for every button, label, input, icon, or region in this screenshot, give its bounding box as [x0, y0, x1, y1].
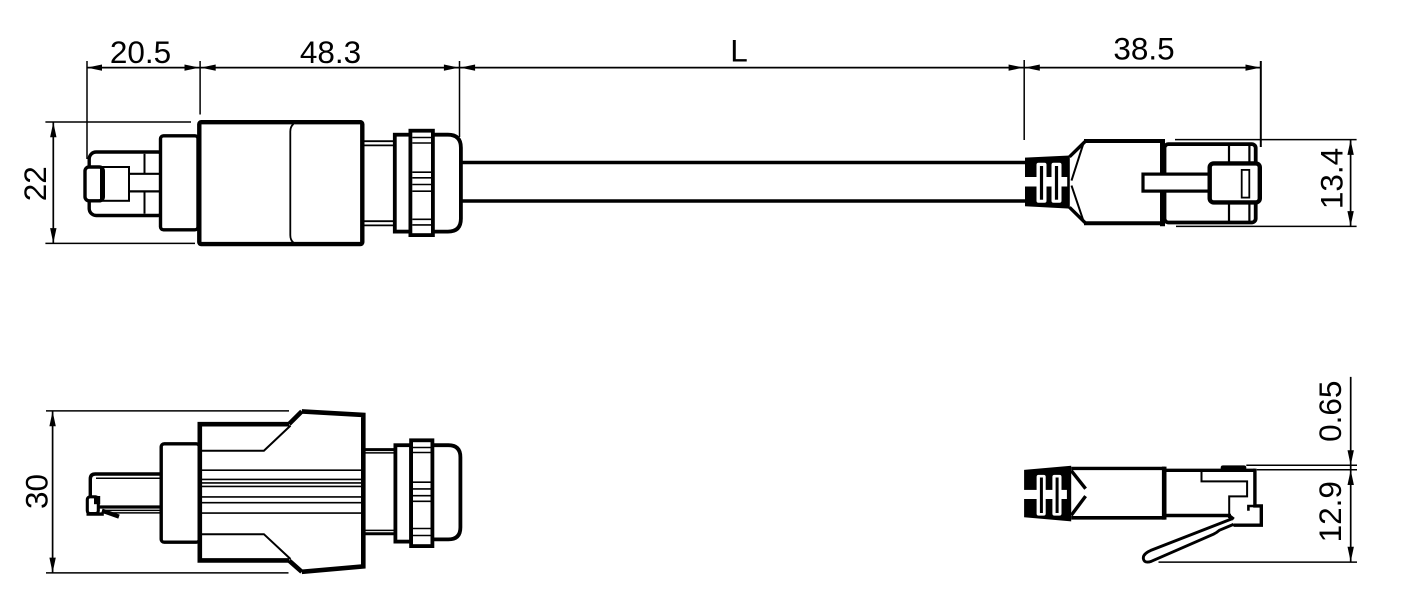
- svg-text:L: L: [730, 33, 748, 69]
- side view knurl lines top group: [413, 448, 431, 453]
- body/front boundary side view: [1162, 467, 1167, 520]
- dim 13.4 bottom extension line: [1176, 225, 1357, 227]
- svg-text:30: 30: [19, 474, 55, 509]
- plug mid vertical lower: [144, 191, 146, 213]
- side view plug thin top line: [96, 477, 162, 479]
- side view plug top edge with left corner: [90, 474, 161, 497]
- side view neck top thin line: [366, 452, 396, 454]
- arrowhead 48.3 right: [444, 65, 459, 71]
- boot bar right top view: [1055, 166, 1058, 200]
- extension line A x=87: [86, 61, 88, 159]
- plug latch tab top view: [85, 167, 103, 201]
- arrowhead 38.5 left: [1025, 65, 1040, 71]
- dim 13.4 dimension line: [1350, 140, 1352, 227]
- contact block slot: [1242, 170, 1250, 198]
- boot middle band side view: [1024, 490, 1067, 499]
- dim 30 arrow down: [49, 558, 55, 573]
- side view spring lines: [202, 470, 362, 513]
- housing divider line: [290, 124, 293, 243]
- boot slot right top view: [1052, 163, 1062, 203]
- side view housing rectangle edges: [200, 424, 289, 560]
- strain relief boot top view: [1025, 156, 1070, 209]
- boot cone upper inner diagonal: [1072, 144, 1084, 181]
- neck line top 2: [365, 144, 396, 146]
- dim 13.4 arrow up: [1347, 140, 1353, 155]
- boot slot right side view: [1052, 475, 1061, 516]
- front bottom edge side view: [1164, 514, 1231, 517]
- side view latch thin line 2: [102, 512, 162, 514]
- plug mid vertical upper: [144, 154, 146, 174]
- svg-text:22: 22: [17, 166, 53, 201]
- svg-text:13.4: 13.4: [1314, 148, 1350, 209]
- RJ45 front cage top view: [1165, 144, 1256, 222]
- neck line bottom 1: [365, 220, 396, 222]
- side view latch thin line 1: [102, 509, 162, 511]
- front cage inner vertical 2: [1248, 146, 1250, 221]
- knurl lines bottom group: [412, 219, 431, 225]
- front right edge and latch root side view: [1234, 469, 1262, 526]
- svg-text:0.65: 0.65: [1312, 381, 1348, 442]
- RJ45 plug body top edge top view: [1084, 139, 1165, 143]
- svg-text:38.5: 38.5: [1113, 31, 1174, 67]
- boot cone upper outer diagonal: [1070, 142, 1086, 157]
- latch lever side view: [1143, 519, 1233, 562]
- side view knurled nut: [411, 440, 432, 546]
- dim 30 dimension line: [52, 411, 54, 573]
- extension line C x=459.5: [459, 61, 461, 137]
- side view knurl lines middle group: [413, 482, 431, 501]
- latch lever root junction: [1229, 516, 1234, 520]
- boot slot left side view: [1037, 475, 1046, 516]
- svg-text:20.5: 20.5: [110, 34, 171, 70]
- arrowhead 20.5 left: [87, 65, 102, 71]
- svg-text:48.3: 48.3: [300, 34, 361, 70]
- dim 22 dimension line: [52, 122, 54, 243]
- boot bar right side view: [1056, 478, 1059, 514]
- extension line E x=1260.8: [1260, 61, 1262, 147]
- arrowhead 20.5 right: [185, 65, 200, 71]
- arrowhead 38.5 right: [1246, 65, 1261, 71]
- main housing body top view: [199, 122, 362, 244]
- boot bar left side view: [1040, 478, 1043, 514]
- boot bar left top view: [1040, 166, 1043, 200]
- plug inner square contact body: [101, 167, 129, 201]
- knurl lines middle group: [412, 172, 431, 191]
- side view hook bottom bar: [87, 512, 104, 515]
- dim 0.65 arrow down (from above): [1348, 450, 1354, 465]
- cable lower line: [463, 199, 1026, 202]
- dim 0.65 lower extension line: [1257, 469, 1357, 471]
- boot cone lower diagonal side view: [1071, 496, 1085, 515]
- side view sleeve trapezoid: [302, 411, 364, 571]
- side view knurl lines bottom group: [413, 529, 431, 536]
- gland flange ring top view: [395, 135, 411, 232]
- dim 22 arrow up: [50, 122, 56, 137]
- side view latch hook step: [94, 496, 100, 504]
- knurled nut top view: [410, 131, 433, 235]
- boot cone lower outer diagonal: [1070, 207, 1086, 222]
- RJ45 body/front boundary top view: [1160, 139, 1165, 226]
- plug body bottom edge side view: [1071, 516, 1165, 520]
- side view plug bottom edge: [98, 505, 162, 508]
- side view housing upper thick diagonal: [289, 411, 302, 424]
- dim 30 bottom extension line: [46, 572, 289, 574]
- contact bump on top: [1221, 465, 1247, 470]
- RJ45 plug outline, top view left connector: [89, 152, 165, 216]
- dim 13.4 top extension line: [1175, 139, 1357, 141]
- front top edge side view: [1164, 469, 1255, 472]
- dim 22 top extension line: [45, 121, 191, 123]
- extension line D x=1024.2: [1023, 60, 1025, 140]
- dim 30 top extension line: [46, 410, 289, 412]
- arrowhead L right: [1009, 65, 1024, 71]
- plug body top edge side view: [1071, 467, 1165, 470]
- neck line top 1: [365, 140, 396, 142]
- boot cone upper diagonal side view: [1071, 471, 1085, 489]
- plug channel line upper: [129, 173, 161, 175]
- plug channel line lower: [129, 190, 161, 192]
- side view gland flange ring: [395, 445, 411, 541]
- step collar top view: [161, 136, 199, 230]
- dim 30 arrow up: [49, 411, 55, 426]
- neck line bottom 2: [365, 224, 396, 226]
- arrowhead L left: [460, 65, 475, 71]
- RJ45 plug body bottom edge top view: [1084, 221, 1165, 225]
- nose staircase lines side view: [1202, 471, 1248, 516]
- dim 12.9 arrow up: [1348, 470, 1354, 485]
- cable gland backshell top view: [433, 135, 461, 232]
- arrowhead 48.3 left: [201, 65, 216, 71]
- latch catch step side view: [1248, 506, 1256, 511]
- side view neck top thick line: [366, 448, 396, 451]
- dim 0.65 / 12.9 dimension line: [1350, 377, 1352, 562]
- svg-text:12.9: 12.9: [1312, 481, 1348, 542]
- dim 0.65 upper extension line: [1246, 464, 1357, 466]
- side view latch diagonal: [102, 511, 119, 517]
- side view neck bottom thin line: [366, 529, 396, 531]
- side view step collar: [161, 444, 199, 542]
- dim 22 bottom extension line: [45, 242, 195, 244]
- side view latch hook: [87, 497, 98, 514]
- side view neck bottom thick line: [366, 532, 396, 535]
- side view chamfer bottom line: [200, 534, 291, 559]
- contact block top view: [1210, 163, 1260, 202]
- boot slot left top view: [1037, 163, 1047, 203]
- dim 22 arrow down: [50, 228, 56, 243]
- front cage inner vertical 1: [1228, 146, 1230, 221]
- knurl lines top group: [412, 138, 431, 144]
- dim 13.4 arrow down: [1347, 211, 1353, 226]
- side view backshell: [432, 445, 460, 539]
- side view chamfer top line: [200, 426, 291, 451]
- side view housing lower thick diagonal: [289, 561, 302, 572]
- extension line B x=200: [199, 61, 201, 115]
- dimension line top row (20.5 / 48.3 / L / 38.5): [87, 67, 1261, 69]
- contact bar top view: [1143, 174, 1210, 191]
- boot cone lower inner diagonal: [1072, 186, 1084, 221]
- cable upper line: [463, 161, 1026, 164]
- boot middle band top view: [1025, 177, 1068, 187]
- dim 12.9 bottom extension line: [1159, 561, 1358, 563]
- strain relief boot side view: [1024, 466, 1071, 522]
- dim 12.9 arrow down: [1348, 547, 1354, 562]
